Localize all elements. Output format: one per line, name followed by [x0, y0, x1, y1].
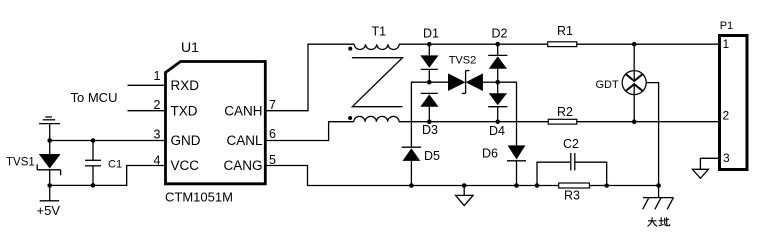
- diode D6: [507, 145, 526, 185]
- wire (CANH top rail): [399, 43, 720, 45]
- svg-text:C2: C2: [563, 137, 579, 151]
- resistor R3: [559, 183, 590, 188]
- ground (signal ground below rail): [456, 186, 474, 206]
- TVS2: [448, 71, 483, 94]
- svg-text:D4: D4: [489, 124, 505, 138]
- wire (pin 1 RXD): [128, 84, 165, 86]
- svg-text:1: 1: [723, 37, 730, 51]
- svg-text:D3: D3: [422, 123, 438, 137]
- wire (left midpoint branch down to D5): [411, 82, 429, 147]
- svg-text:To MCU: To MCU: [71, 90, 118, 105]
- svg-text:CTM1051M: CTM1051M: [165, 189, 233, 204]
- connector P1: [720, 36, 748, 170]
- node (ground tap): [462, 183, 467, 188]
- GDT gas discharge tube: [622, 44, 658, 185]
- svg-text:2: 2: [154, 98, 161, 112]
- svg-text:R1: R1: [557, 24, 573, 38]
- svg-text:U1: U1: [181, 39, 199, 55]
- IC U1 CTM1051M body: [166, 62, 266, 184]
- wire (C2 loop): [537, 162, 571, 185]
- svg-text:3: 3: [723, 151, 730, 165]
- svg-text:D5: D5: [424, 149, 440, 163]
- wire (pin 2 TXD): [128, 110, 165, 112]
- ground (P1 pin 3): [692, 169, 708, 178]
- svg-text:C1: C1: [108, 158, 122, 170]
- diode D1: [420, 44, 438, 82]
- svg-text:CANH: CANH: [224, 103, 262, 118]
- node (D6 bottom): [514, 183, 519, 188]
- wire (midpoint rail through TVS2): [429, 81, 448, 83]
- node (GDT bottom on CANL rail): [632, 119, 637, 124]
- diode D2: [488, 44, 507, 82]
- capacitor C2: [571, 153, 575, 171]
- diode D4: [488, 82, 507, 122]
- svg-text:1: 1: [154, 69, 161, 83]
- node (TVS1 bottom): [47, 183, 52, 188]
- svg-text:D2: D2: [492, 27, 508, 41]
- diode D3: [420, 93, 438, 121]
- node (D1/D3 midpoint): [427, 80, 432, 85]
- svg-text:5: 5: [269, 153, 276, 167]
- svg-text:GDT: GDT: [595, 79, 619, 91]
- svg-text:3: 3: [154, 127, 161, 141]
- TVS1: [37, 141, 60, 186]
- svg-text:D1: D1: [423, 27, 439, 41]
- svg-text:TVS2: TVS2: [449, 55, 477, 67]
- ground (top-left, above TVS1): [39, 117, 60, 141]
- node (C2 loop left): [535, 183, 540, 188]
- wire (+5V rail to pin 4 jog): [50, 166, 165, 186]
- svg-text:R3: R3: [564, 188, 580, 202]
- node (D2/D4 midpoint): [495, 80, 500, 85]
- svg-text:RXD: RXD: [171, 78, 200, 93]
- svg-text:7: 7: [269, 98, 276, 112]
- svg-text:R2: R2: [557, 105, 573, 119]
- svg-text:CANG: CANG: [223, 158, 262, 173]
- node (D1 top): [427, 42, 432, 47]
- svg-text:CANL: CANL: [226, 133, 263, 148]
- node (C1 top): [91, 138, 96, 143]
- node (C2 loop right): [604, 183, 609, 188]
- node (D4 bottom): [495, 119, 500, 124]
- diode D5: [402, 147, 421, 185]
- resistor R2: [548, 119, 577, 124]
- wire (pin 6 CANL up to winding): [264, 122, 354, 141]
- svg-text:TXD: TXD: [171, 103, 198, 118]
- svg-text:T1: T1: [372, 25, 387, 39]
- svg-text:+5V: +5V: [37, 203, 61, 218]
- power +5V: [37, 185, 61, 218]
- node (D3 bottom): [427, 119, 432, 124]
- wire (P1 pin 3 to ground): [700, 158, 719, 169]
- wire (CANL rail): [399, 121, 720, 123]
- wire (right midpoint branch down to D6): [498, 82, 517, 145]
- wire (GND rail to pin 3): [50, 140, 165, 142]
- capacitor C1: [85, 141, 101, 186]
- label 大地 (drawn strokes): [648, 217, 670, 226]
- transformer T1: [348, 44, 402, 122]
- earth ground 大地: [643, 186, 674, 210]
- svg-text:GND: GND: [171, 133, 201, 148]
- node (earth tap): [656, 183, 661, 188]
- svg-text:2: 2: [723, 109, 730, 123]
- svg-text:D6: D6: [482, 147, 498, 161]
- svg-text:P1: P1: [720, 20, 733, 32]
- svg-text:VCC: VCC: [171, 158, 200, 173]
- svg-text:4: 4: [154, 153, 161, 167]
- node (D2 top): [495, 42, 500, 47]
- wire (pin 7 CANH up to top rail): [264, 44, 354, 111]
- node (TVS1 top / GND rail): [47, 138, 52, 143]
- svg-text:TVS1: TVS1: [6, 157, 35, 169]
- node (D5 bottom): [409, 183, 414, 188]
- node (C1 bottom): [91, 183, 96, 188]
- wire (pin 5 CANG down to ground rail): [264, 166, 659, 186]
- resistor R1: [548, 42, 577, 47]
- svg-text:6: 6: [269, 127, 276, 141]
- node (GDT top on CANH rail): [632, 42, 637, 47]
